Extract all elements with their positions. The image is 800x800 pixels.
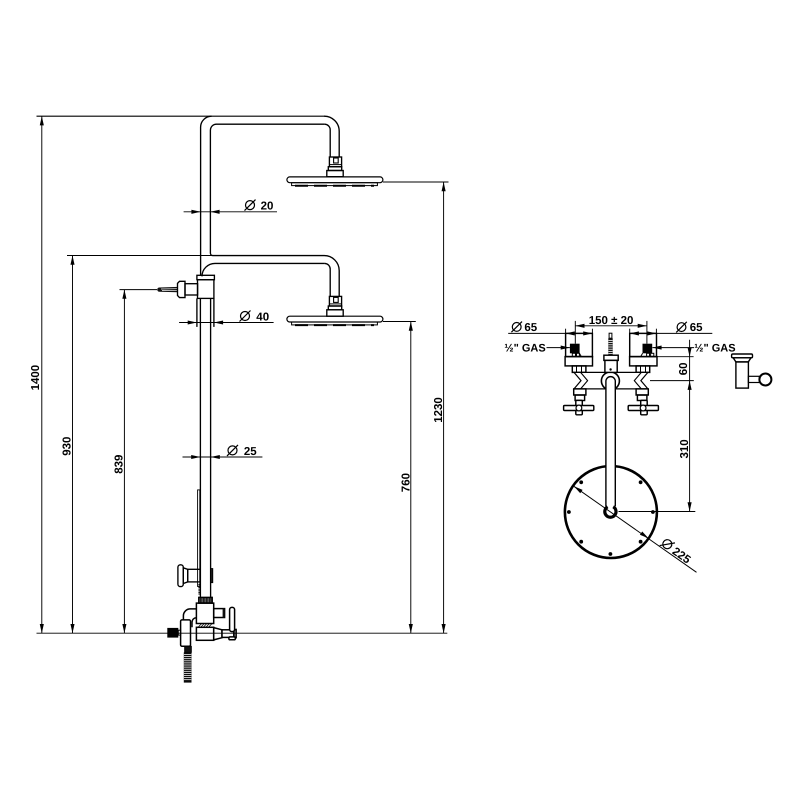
- rail ribs: [198, 584, 200, 594]
- svg-text:930: 930: [62, 437, 74, 456]
- Ø65 left dimension line: [508, 332, 592, 334]
- dimension texts right view: [504, 315, 735, 567]
- dimension 1230 line + extension: [443, 182, 445, 633]
- dimension 930 line + extension: [72, 256, 74, 634]
- Ø40 dimension line: [179, 322, 274, 324]
- 150±20 extension lines: [574, 321, 576, 344]
- center post body: [605, 360, 617, 372]
- left elbow inner: [192, 618, 196, 628]
- svg-text:1230: 1230: [433, 397, 445, 423]
- threaded stem top: [609, 333, 612, 338]
- shower head 1: cone fitting: [328, 167, 341, 171]
- shower head 1: ball joint: [329, 157, 341, 167]
- svg-text:839: 839: [114, 455, 126, 474]
- svg-text:40: 40: [256, 312, 269, 324]
- GAS leader left: [547, 347, 570, 349]
- svg-text:20: 20: [261, 201, 274, 213]
- wall bracket: [181, 620, 191, 646]
- coupling hatch: [198, 624, 212, 627]
- slider knob neck: [183, 568, 187, 584]
- Ø symbol for 65 left: [511, 322, 686, 552]
- arrowheads left view: [40, 116, 446, 633]
- svg-text:60: 60: [678, 363, 690, 376]
- right bonnet: [636, 389, 648, 395]
- hose nut: [185, 646, 192, 652]
- diverter valve body: [196, 603, 213, 623]
- right base plate: [630, 357, 657, 366]
- Ø65 right dimension line: [630, 332, 713, 334]
- left cross handle: [576, 400, 583, 414]
- hand shower cap: [732, 354, 753, 358]
- wall connection black square: [167, 628, 178, 638]
- svg-text:65: 65: [690, 322, 703, 334]
- shower head 1: disc: [287, 177, 383, 183]
- center boss outer: [601, 372, 619, 390]
- right black inlet square: [643, 344, 653, 354]
- Ø symbol for 25: [228, 446, 237, 455]
- down tube with rounded top: [606, 377, 615, 507]
- GAS leader right: [652, 347, 694, 349]
- 150±20 dimension line: [575, 325, 647, 327]
- bar chevron right: [634, 372, 641, 389]
- left base plate: [565, 357, 592, 366]
- outlet cylinder: [222, 630, 234, 638]
- outlet end cap: [234, 630, 236, 638]
- svg-text:150 ± 20: 150 ± 20: [589, 315, 634, 327]
- shower head 2: cone fitting: [328, 306, 341, 310]
- right mounting block: [630, 333, 657, 356]
- shower head 2: ball joint: [329, 296, 341, 306]
- side fitting: cylinder: [185, 284, 198, 295]
- lower valve body: [196, 627, 213, 640]
- lower valve cone: [214, 628, 222, 640]
- hand shower connector: [748, 376, 759, 382]
- left valve neck: [572, 366, 586, 373]
- right cross handle: [641, 400, 648, 414]
- dimension 760 line + extension: [410, 322, 412, 634]
- left black inlet square: [570, 344, 580, 354]
- right port: [214, 609, 225, 618]
- side fitting: threaded stem: [157, 287, 178, 292]
- lower arm inner right elbow: [325, 263, 331, 296]
- Ø25 dimension line: [183, 456, 263, 458]
- slider knob stem: [188, 569, 200, 582]
- svg-text:760: 760: [400, 473, 412, 492]
- shower head 2: lip / spray face: [292, 322, 378, 325]
- shower head 2: disc: [287, 316, 383, 322]
- svg-text:25: 25: [244, 446, 257, 458]
- upper arm top line + 1400 extension line: [37, 115, 325, 117]
- label Ø225: [670, 546, 693, 567]
- hand shower body: [736, 362, 749, 388]
- dimension texts left view: [30, 201, 445, 493]
- junction block cap: [197, 275, 215, 279]
- slider knob flange: [178, 565, 183, 587]
- left mounting block: [566, 333, 593, 356]
- Ø symbol for 40: [241, 312, 250, 321]
- 60/310 dimension vertical line: [689, 340, 691, 512]
- bar chevron left: [581, 372, 588, 389]
- nozzle dots: [567, 480, 655, 555]
- knurled nut at column bottom: [199, 597, 212, 603]
- arrowheads right view: [561, 324, 692, 540]
- center post cap: [604, 355, 618, 360]
- hand shower neck: [733, 358, 751, 362]
- lower arm outer right elbow + down pipe: [324, 256, 339, 296]
- Ø225 diagonal leader: [574, 486, 697, 572]
- hand shower hose: [184, 652, 192, 682]
- threaded stem ribbed: [608, 338, 612, 355]
- cross bar body: [574, 372, 648, 389]
- hand shower knob: [759, 374, 771, 386]
- right valve neck: [636, 366, 650, 373]
- dimension 1400 line: [41, 116, 43, 633]
- 60 extension lines: [657, 356, 694, 358]
- side fitting: hex nut: [178, 281, 186, 297]
- svg-text:½" GAS: ½" GAS: [694, 343, 735, 355]
- upper arm bottom line + inner left fillet + column right line: [210, 124, 324, 255]
- holder clip right: [211, 569, 213, 583]
- center ball fitting: [605, 507, 616, 517]
- column outer left line from top elbow down to junction block: [201, 116, 212, 275]
- upper arm outer right elbow + down pipe outer: [324, 116, 339, 157]
- Ø symbol for 20: [227, 200, 256, 456]
- shower head 1: lip / spray face: [292, 183, 378, 186]
- left bonnet: [574, 389, 586, 395]
- slide rail: [198, 490, 200, 587]
- Ø65 block edge extensions: [565, 329, 567, 334]
- upper arm inner right elbow + down pipe inner: [325, 124, 331, 157]
- svg-text:65: 65: [524, 322, 537, 334]
- lower arm bottom line curving into junction block: [202, 263, 325, 276]
- svg-text:1400: 1400: [30, 365, 42, 391]
- dimension 839 line + extension: [123, 290, 125, 634]
- 310 bottom extension: [619, 511, 696, 513]
- svg-text:310: 310: [679, 439, 691, 458]
- junction block body: [198, 280, 214, 299]
- lever handle: [230, 607, 235, 631]
- Ø40 stub below junction: [196, 298, 198, 327]
- Ø symbol for 65 right: [677, 323, 686, 332]
- left elbow outer: [183, 609, 196, 623]
- Ø20 dimension line: [184, 211, 277, 213]
- big shower head circle: [565, 466, 657, 558]
- Ø25 column pipe: [199, 298, 201, 597]
- floor reference line: [37, 632, 448, 634]
- svg-text:½" GAS: ½" GAS: [504, 343, 545, 355]
- Ø symbol for 225 (rotated): [660, 537, 675, 552]
